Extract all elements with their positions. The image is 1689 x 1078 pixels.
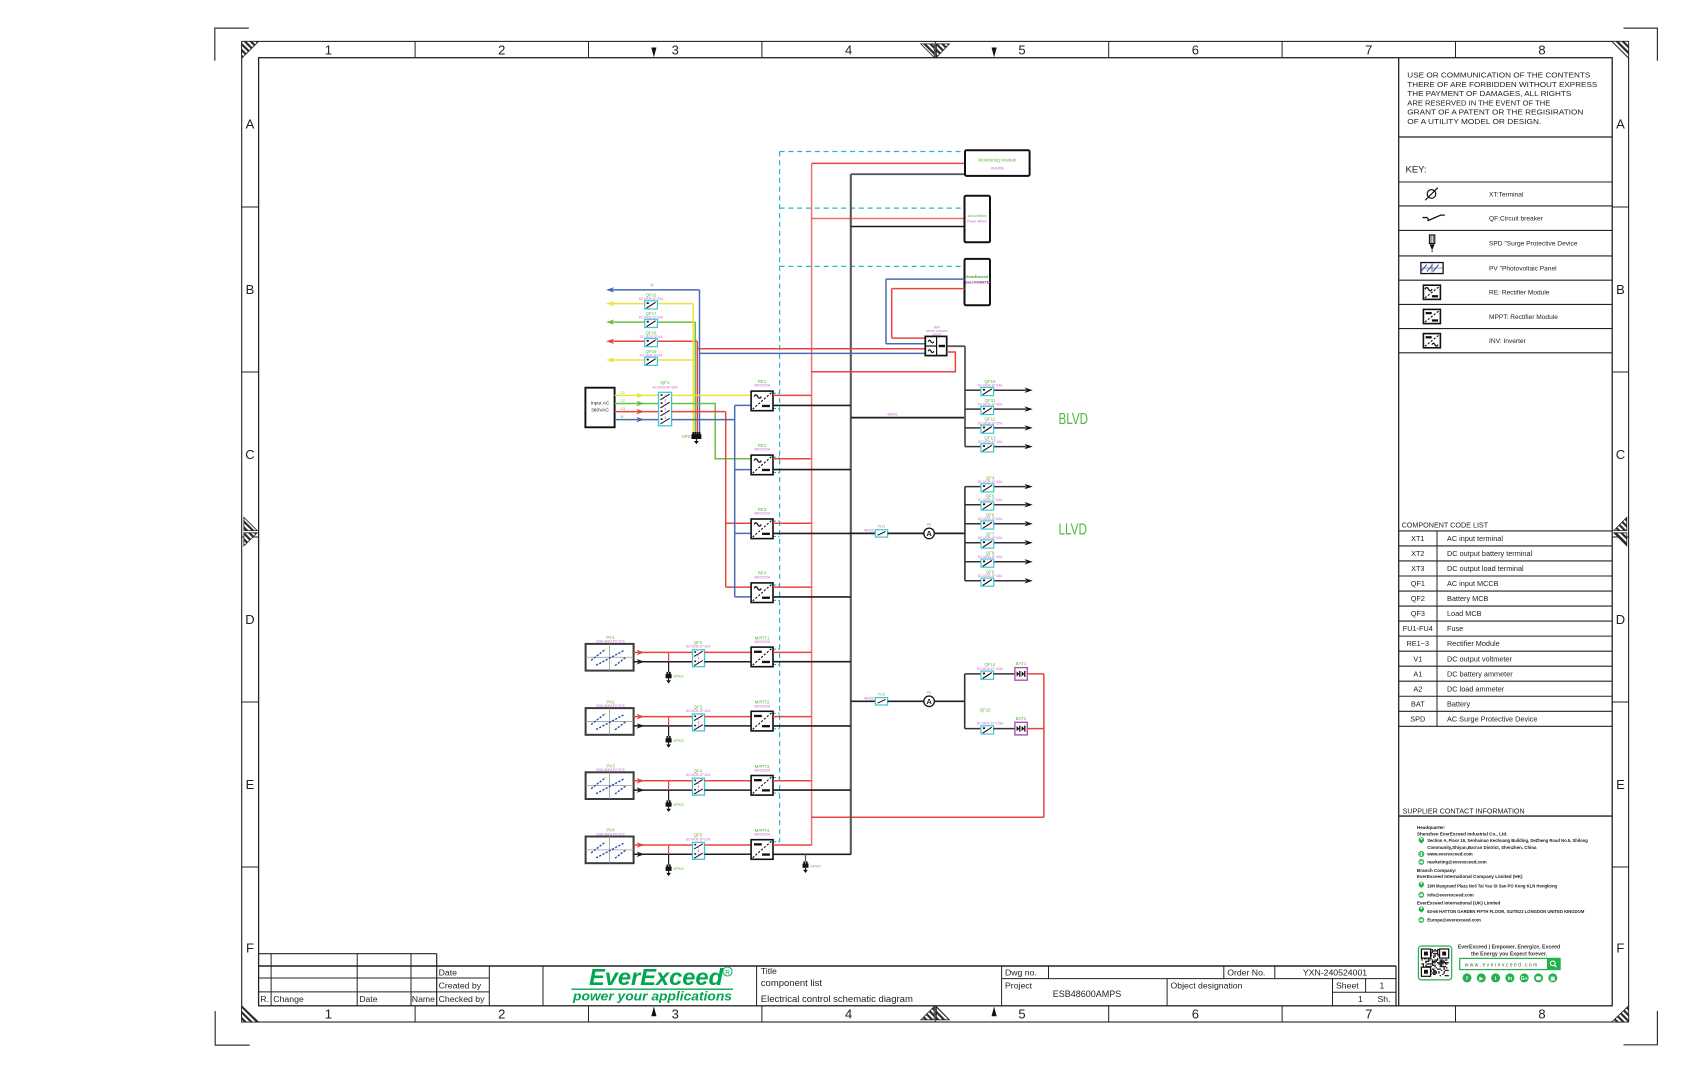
svg-text:Title: Title [761,966,777,976]
load branch QF8 [965,561,981,563]
trim mark bottom-right [1624,1011,1658,1045]
KEY symbol: RE module [1423,285,1440,299]
MPPT module MPPT2 [751,711,773,731]
wire red RE2 output [773,458,812,460]
svg-text:Fuse: Fuse [1447,624,1463,633]
svg-text:DC output battery terminal: DC output battery terminal [1447,549,1533,558]
svg-text:B: B [246,282,255,297]
svg-text:F: F [1616,941,1624,956]
SPD1 [668,652,670,661]
wire red MPPT1 out [773,651,812,653]
svg-text:FU1: FU1 [878,524,886,529]
svg-text:Dwg no.: Dwg no. [1005,968,1037,978]
wire black MPPT2 out [773,725,851,727]
wire red to MPPT4 [705,844,752,846]
svg-text:FU1-FU4: FU1-FU4 [1403,624,1433,633]
wire black to monitoring module [851,173,965,175]
shunt FU1 [875,530,887,537]
svg-text:QF1: QF1 [1411,579,1425,588]
svg-text:SPD4: SPD4 [673,866,684,871]
svg-text:THERE OF ARE FORBIDDEN WIT: THERE OF ARE FORBIDDEN WITHOUT EXPRESS [1407,82,1597,89]
LLVD bus [964,487,966,581]
wire blue INV input [700,352,926,354]
wire black to aircondition [851,226,965,228]
svg-text:component list: component list [761,978,823,989]
wire black PV4 [634,853,693,855]
PV panel PV3 [586,772,634,799]
svg-text:Change: Change [273,994,304,1004]
svg-text:Sheet: Sheet [1336,980,1359,990]
svg-text:EverExceed International (UK): EverExceed International (UK) Limited [1417,901,1501,906]
svg-text:V1: V1 [1413,654,1422,663]
svg-text:EverExceed | Empower, Energize: EverExceed | Empower, Energize, Exceed [1458,945,1560,951]
svg-text:LLVD: LLVD [1059,522,1088,539]
svg-text:5: 5 [1018,1007,1025,1022]
comm dash to monitoring module [780,151,965,153]
wire L1 [615,394,659,396]
svg-text:-48VDC: -48VDC [863,697,876,701]
rectifier module RE2 [751,455,773,475]
svg-text:PV "Photovoltaic Panel: PV "Photovoltaic Panel [1489,265,1557,272]
svg-text:XT3: XT3 [1411,564,1424,573]
svg-text:7: 7 [1365,42,1372,57]
svg-text:8: 8 [1538,1007,1545,1022]
svg-text:Date: Date [359,994,378,1004]
svg-text:48VDC50A: 48VDC50A [754,384,771,388]
svg-text:AC Surge Protective Device: AC Surge Protective Device [1447,714,1537,723]
feeder row N [606,287,614,292]
svg-text:SPD2: SPD2 [673,738,684,743]
SPD3 [668,781,670,790]
svg-text:DC-MCB-1P-125A: DC-MCB-1P-125A [977,667,1004,671]
wire black PV2 [634,725,693,727]
rectifier module RE3 [751,519,773,539]
comm dash stub [773,841,780,843]
breaker QF5 [693,842,705,859]
KEY table [1399,181,1613,183]
load branch QF6 [965,523,981,525]
MPPT module MPPT4 [751,840,773,860]
wire red BAT2 [1027,728,1044,730]
svg-text:48VDC50A: 48VDC50A [754,769,771,773]
QR code [1418,946,1451,980]
wire black RE3 output [773,532,851,534]
svg-text:Load MCB: Load MCB [1447,609,1482,618]
load branch QF12 [965,427,981,429]
wire red to aircondition [812,218,965,220]
svg-text:3: 3 [672,42,679,57]
svg-text:DC-MCB-1P-16A: DC-MCB-1P-16A [978,555,1003,559]
svg-text:D: D [1616,612,1625,627]
svg-text:48VDC50A: 48VDC50A [754,448,771,452]
svg-text:DC load ammeter: DC load ammeter [1447,684,1505,693]
wire blue inverter AC out [886,278,965,280]
wire black to MPPT3 [705,789,752,791]
corner hatch triangle bottom-right [1612,1006,1629,1022]
svg-text:A: A [1616,117,1625,132]
svg-text:G+: G+ [1521,976,1528,982]
centering mark bottom [921,1007,934,1020]
wire red INV DC [812,352,956,372]
KEY symbol: MPPT module [1423,309,1440,323]
svg-text:5: 5 [1018,42,1025,57]
comm dash stub [773,456,780,458]
svg-text:DC-MCB-1P-6A: DC-MCB-1P-6A [640,335,664,339]
wire L3 out [672,411,726,413]
wire red PV2 [634,716,693,718]
svg-text:380VAC: 380VAC [591,407,609,413]
monitoring module [965,150,1030,176]
svg-text:2: 2 [498,1007,505,1022]
svg-text:4: 4 [845,1007,852,1022]
load branch QF13 [965,446,981,448]
svg-text:USE OR COMMUNICATION OF TH: USE OR COMMUNICATION OF THE CONTENTS [1407,73,1590,80]
dwg / order cells [1001,966,1003,1006]
svg-text:DC output load terminal: DC output load terminal [1447,564,1524,573]
svg-text:MPPT: Rectifier Module: MPPT: Rectifier Module [1489,314,1558,321]
svg-text:THE PAYMENT OF DAMAGES, AL: THE PAYMENT OF DAMAGES, ALL RIGHTS [1407,91,1571,98]
rectifier module RE4 [751,583,773,603]
svg-text:FU2: FU2 [878,692,886,697]
inverter outlet box [965,259,991,305]
vertical feeder wires L1 L2 L3 N [692,304,694,432]
svg-text:-48VDC: -48VDC [886,413,899,417]
svg-text:AC input MCCB: AC input MCCB [1447,579,1499,588]
svg-text:N: N [650,283,653,288]
wire red to MPPT2 [705,716,752,718]
corner hatch triangle bottom-left [242,1006,259,1022]
aircondition box [965,196,991,243]
comm dash stub [773,584,780,586]
svg-text:E: E [1616,777,1625,792]
svg-text:DC-MCB-1P-63A: DC-MCB-1P-63A [978,384,1003,388]
svg-text:L2: L2 [621,398,626,403]
svg-text:3: 3 [672,1007,679,1022]
wire L2 [615,403,659,405]
red distribution vertical [725,412,727,587]
blue distribution vertical [734,405,736,597]
svg-text:1: 1 [325,42,332,57]
svg-text:Checked by: Checked by [439,994,486,1004]
wire L3 [615,411,659,413]
MPPT module MPPT3 [751,776,773,796]
svg-text:DC-MCB-1P-32A: DC-MCB-1P-32A [639,297,664,301]
load branch QF7 [965,542,981,544]
breaker QF4 [693,778,705,795]
wire red MPPT3 out [773,780,812,782]
svg-text:info@everexceed.com: info@everexceed.com [1427,893,1474,898]
wire red PV4 [634,844,693,846]
KEY symbol: XT terminal [1427,190,1436,199]
svg-text:QF2: QF2 [1411,594,1425,603]
svg-text:Date: Date [439,968,458,978]
feeder row QF17 [606,319,614,324]
svg-text:DC output voltmeter: DC output voltmeter [1447,654,1512,663]
wire L2 out [672,404,752,459]
wire red to MPPT3 [705,780,752,782]
svg-text:48VDC50A: 48VDC50A [754,640,771,644]
comm dashed bus [779,152,781,842]
svg-text:XT:Terminal: XT:Terminal [1489,191,1524,198]
feeder row QF18 [606,339,614,344]
svg-text:SUPPLIER CONTACT INFORMATION: SUPPLIER CONTACT INFORMATION [1403,807,1525,816]
svg-text:N: N [621,414,624,419]
svg-text:500VA: 500VA [932,333,942,337]
wire black MPPT3 out [773,789,851,791]
breaker QF16 [645,301,658,309]
svg-text:the Energy you Expect forever.: the Energy you Expect forever. [1471,951,1548,957]
svg-text:Community,Shiyan,Bao'an Distri: Community,Shiyan,Bao'an District, Shenzh… [1427,845,1537,850]
wire black MPPT4 out [773,853,851,855]
svg-text:DC-MCB-1P-63A: DC-MCB-1P-63A [978,536,1003,540]
inverter INV [892,337,926,339]
svg-text:R: R [725,969,730,976]
svg-text:A1: A1 [1413,669,1422,678]
wire red MPPT4 out [773,844,812,846]
wire red BAT1 [1027,673,1044,675]
svg-text:19H Maxgrand Plaza No3 Tai Yau: 19H Maxgrand Plaza No3 Tai Yau St San PO… [1427,884,1557,889]
wire red battery link [812,816,1044,818]
svg-text:DC-MCB-2P-32A: DC-MCB-2P-32A [686,645,711,649]
PV panel PV4 [586,837,634,864]
svg-text:48VDC50A: 48VDC50A [754,704,771,708]
ammeter A2 [924,528,935,539]
wire black to MPPT1 [705,661,752,663]
svg-text:DC-MCB-1P-6A: DC-MCB-1P-6A [640,354,664,358]
KEY symbol: QF circuit breaker [1423,215,1445,221]
svg-text:1: 1 [1358,994,1363,1004]
breaker QF19 [645,357,658,365]
wire red PV3 [634,780,693,782]
wire red inverter AC out [892,288,965,290]
centering mark right [1614,517,1627,530]
svg-text:QF:Circuit breaker: QF:Circuit breaker [1489,216,1544,223]
right panel border [1398,58,1400,1006]
svg-text:Electrical control schematic d: Electrical control schematic diagram [761,994,913,1005]
svg-text:COMPONENT CODE LIST: COMPONENT CODE LIST [1402,521,1489,530]
svg-text:Battery MCB: Battery MCB [1447,594,1488,603]
SPD main [691,434,701,439]
comm dash to aircondition [780,207,965,209]
svg-text:Power 48VDC: Power 48VDC [967,220,988,224]
svg-text:BLVD: BLVD [1059,411,1089,428]
svg-text:SPD "Surge Protective Device: SPD "Surge Protective Device [1489,241,1578,248]
svg-text:A: A [246,117,255,132]
svg-text:Sh.: Sh. [1378,994,1391,1004]
svg-text:w w w . e v e r e x c e e d .: w w w . e v e r e x c e e d . c o m [1465,962,1538,968]
svg-text:GRANT OF A PATENT OR THE: GRANT OF A PATENT OR THE REGISIRATION [1407,110,1583,117]
wire red INV input [697,348,925,350]
svg-text:AC-MCB-4P-63A: AC-MCB-4P-63A [652,386,678,390]
svg-text:ESB-340M-PX PCS: ESB-340M-PX PCS [596,640,624,644]
svg-text:-48VDC: -48VDC [863,529,876,533]
top reference strip [414,41,416,57]
comm dash stub [773,777,780,779]
load branch QF10 [965,389,981,391]
breaker QF18 [645,339,658,347]
trim mark top-left [215,28,249,61]
title cell [756,966,758,1006]
svg-text:A1: A1 [927,690,933,695]
centering mark left [244,517,257,530]
svg-text:DC-MCB-2P-32A: DC-MCB-2P-32A [686,773,711,777]
svg-text:Battery: Battery [1447,699,1470,708]
corner hatch triangle top-left [242,41,259,58]
svg-text:Section A, Floor 19, Senhainuo: Section A, Floor 19, Senhainuo Kechuang … [1427,838,1588,843]
wire black RE2 output [773,469,851,471]
svg-text:DC-MCB-1P-63A: DC-MCB-1P-63A [978,517,1003,521]
svg-text:Shenzhen EverExceed Industrial: Shenzhen EverExceed Industrial Co., Ltd. [1417,831,1508,836]
svg-text:INV: Inverter: INV: Inverter [1489,338,1527,345]
svg-text:Input AC: Input AC [591,401,610,407]
comm dash to inverter outlet [780,265,965,267]
svg-text:SPD: SPD [1410,714,1425,723]
KEY symbol: PV panel [1421,263,1443,274]
search bar [1460,958,1560,969]
social icons [1463,973,1472,982]
comm dash stub [773,712,780,714]
svg-text:AC input terminal: AC input terminal [1447,534,1503,543]
svg-text:DC-MCB-1P-125A: DC-MCB-1P-125A [977,722,1004,726]
svg-text:B: B [1616,282,1625,297]
svg-text:6: 6 [1192,42,1199,57]
svg-text:YXN-240524001: YXN-240524001 [1303,968,1367,978]
battery BAT2 [1015,722,1027,735]
svg-text:EverExceed: EverExceed [966,275,988,279]
title block revision table [259,953,437,955]
svg-text:ESB-340M-PX PCS: ESB-340M-PX PCS [596,768,624,772]
svg-text:▣: ▣ [1550,976,1555,982]
comm dash stub [773,392,780,394]
battery split bus [964,674,966,729]
battery branch QF14 [965,673,981,675]
breaker QF3 [693,714,705,731]
wire black INV output [947,345,965,347]
svg-text:DC-MCB-1P-63A: DC-MCB-1P-63A [978,498,1003,502]
svg-text:RE1~3: RE1~3 [1407,639,1430,648]
wire red RE4 output [773,586,812,588]
wire black PV3 [634,789,693,791]
svg-text:R.: R. [260,994,269,1004]
svg-text:48VDC50A: 48VDC50A [754,511,771,515]
svg-text:☎: ☎ [1535,976,1541,982]
svg-text:QF15: QF15 [980,708,992,713]
svg-text:QF1: QF1 [661,380,670,385]
trim mark top-right [1624,28,1658,61]
breaker QF2 [693,650,705,667]
SPD2 [668,717,670,726]
svg-text:QF3: QF3 [1411,609,1425,618]
battery branch QF15 [965,728,981,730]
battery BAT1 [1015,668,1027,681]
feeder row QF19 [606,357,614,362]
svg-text:Order No.: Order No. [1227,968,1265,978]
svg-text:XT2: XT2 [1411,549,1424,558]
corner hatch triangle top-right [1612,41,1629,58]
svg-text:XT1: XT1 [1411,534,1424,543]
MPPT module MPPT1 [751,647,773,667]
svg-text:BAT2: BAT2 [1016,716,1027,721]
svg-text:E: E [246,777,255,792]
wire -48VDC to BLVD [851,417,965,419]
shunt FU2 [875,698,887,705]
trim mark bottom-left [215,1011,250,1045]
wire red RE3 output [773,522,812,524]
svg-text:8: 8 [1538,42,1545,57]
svg-text:L1: L1 [621,390,626,395]
svg-text:DC-MCB-1P-32A: DC-MCB-1P-32A [639,316,664,320]
wire black to MPPT4 [705,853,752,855]
wire red to MPPT1 [705,651,752,653]
svg-text:A: A [926,529,932,538]
wire black RE4 output [773,596,851,598]
svg-text:ESB48600AMPS: ESB48600AMPS [1053,989,1122,999]
wire red PV1 [634,651,693,653]
svg-text:Headquarter:: Headquarter: [1417,825,1446,830]
load branch QF5 [965,504,981,506]
svg-text:A2: A2 [927,522,933,527]
svg-text:RE: Rectifier Module: RE: Rectifier Module [1489,290,1550,297]
KEY symbol: SPD [1429,235,1434,244]
svg-text:DC-MCB-1P-16A: DC-MCB-1P-16A [978,440,1003,444]
load branch QF9 [965,580,981,582]
red DC+ bus [811,163,813,845]
wire red to monitoring module [812,162,965,164]
rectifier module RE1 [751,391,773,411]
svg-text:DC-MCB-1P-40A: DC-MCB-1P-40A [978,403,1003,407]
svg-text:ESB-340M-PX PCS: ESB-340M-PX PCS [596,704,624,708]
wire black to MPPT2 [705,725,752,727]
svg-text:C: C [245,447,254,462]
svg-text:Name: Name [412,994,435,1004]
svg-text:Aircondition: Aircondition [968,214,987,218]
feeder row QF16 [606,301,614,306]
wire L1 out [672,394,752,396]
BLVD bus [964,346,966,446]
svg-text:EverExceed: EverExceed [589,964,724,990]
svg-text:48VDC50A: 48VDC50A [754,833,771,837]
PV panel PV1 [586,644,634,671]
svg-text:Created by: Created by [439,981,482,991]
svg-text:6: 6 [1192,1007,1199,1022]
wire red RE1 output [773,394,812,396]
load branch QF11 [965,408,981,410]
svg-text:power your applications: power your applications [572,989,732,1004]
svg-text:F: F [246,941,254,956]
svg-text:1: 1 [1380,980,1385,990]
svg-text:63-66 HATTON GARDEN FIFTH FLOO: 63-66 HATTON GARDEN FIFTH FLOOR, SUITE23… [1427,909,1585,914]
svg-text:2: 2 [498,42,505,57]
svg-text:Monitoring Module: Monitoring Module [978,158,1016,163]
red battery vertical [1043,674,1045,817]
svg-text:in: in [1508,976,1512,982]
svg-text:Project: Project [1005,980,1033,990]
svg-text:SPD1: SPD1 [673,674,684,679]
svg-text:DC-MCB-1P-63A: DC-MCB-1P-63A [978,480,1003,484]
svg-text:DC-MCB-1P-25A: DC-MCB-1P-25A [978,421,1003,425]
wire N out [672,419,735,421]
svg-text:A2: A2 [1413,684,1422,693]
wire N [615,419,659,421]
inner border frame [259,58,1613,1006]
svg-text:KEY:: KEY: [1406,165,1427,176]
svg-text:DC-MCB-2P-32A: DC-MCB-2P-32A [686,837,711,841]
comm dash stub [773,520,780,522]
svg-text:Branch Company:: Branch Company: [1417,868,1457,873]
svg-text:Power-INVERTER: Power-INVERTER [963,281,992,285]
svg-text:SPD: SPD [682,434,691,439]
centering mark top [921,44,934,58]
